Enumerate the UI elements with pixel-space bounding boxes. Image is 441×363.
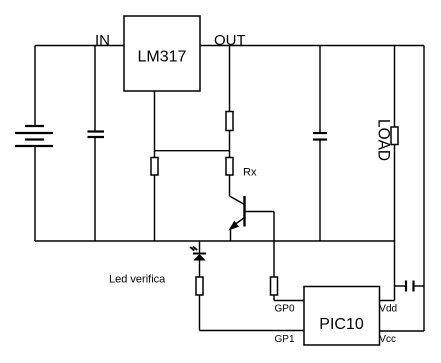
svg-text:LM317: LM317: [138, 49, 187, 66]
svg-text:GP0: GP0: [275, 303, 295, 314]
svg-text:Led verifica: Led verifica: [109, 274, 166, 286]
svg-text:GP1: GP1: [275, 334, 295, 345]
svg-text:OUT: OUT: [214, 32, 246, 49]
svg-text:Rx: Rx: [243, 167, 257, 179]
svg-text:Vdd: Vdd: [379, 303, 397, 314]
svg-text:PIC10: PIC10: [319, 316, 364, 333]
svg-text:LOAD: LOAD: [375, 119, 394, 161]
svg-text:IN: IN: [95, 32, 110, 49]
svg-text:Vcc: Vcc: [379, 334, 396, 345]
